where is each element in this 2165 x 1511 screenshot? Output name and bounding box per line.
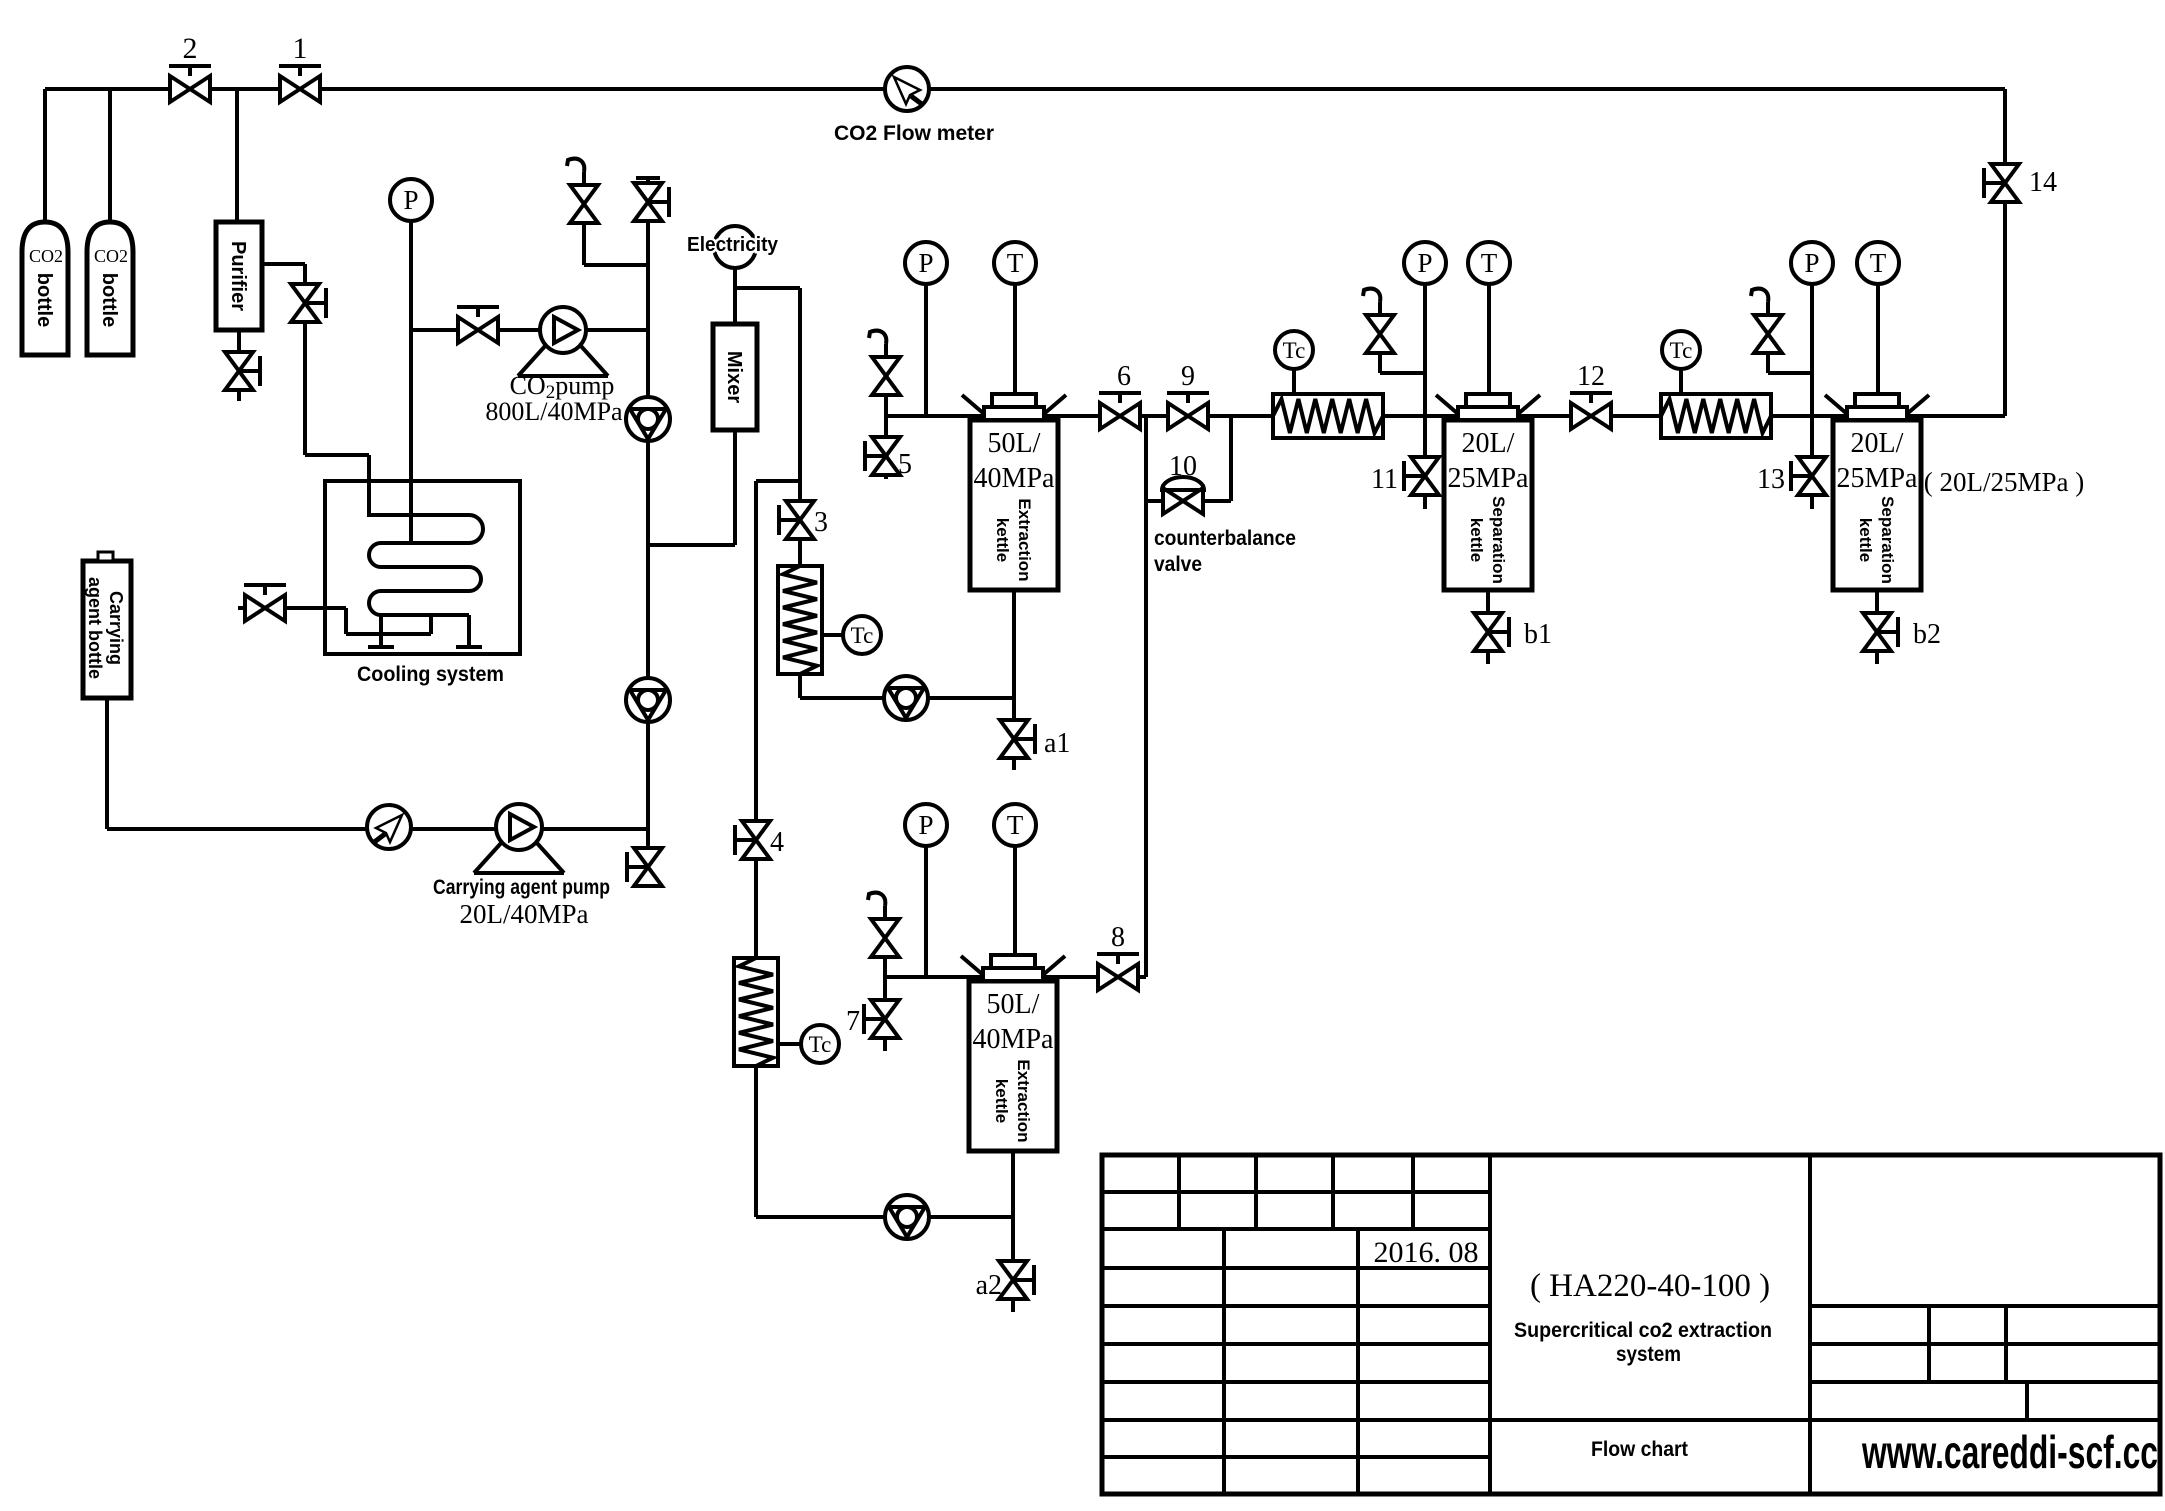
svg-text:P: P [918, 810, 933, 840]
svg-text:counterbalance: counterbalance [1154, 527, 1296, 550]
svg-text:50L/: 50L/ [988, 428, 1041, 459]
svg-text:50L/: 50L/ [987, 989, 1040, 1020]
svg-text:( HA220-40-100 ): ( HA220-40-100 ) [1530, 1268, 1770, 1304]
svg-text:T: T [1007, 810, 1024, 840]
svg-text:Tc: Tc [1283, 338, 1306, 363]
svg-text:Carrying agent pump: Carrying agent pump [433, 876, 610, 899]
svg-text:9: 9 [1181, 361, 1195, 392]
svg-text:10: 10 [1169, 451, 1197, 482]
svg-text:25MPa: 25MPa [1448, 463, 1529, 494]
svg-text:11: 11 [1371, 464, 1398, 495]
svg-text:P: P [1417, 248, 1432, 278]
svg-text:P: P [403, 185, 418, 215]
svg-text:P: P [1804, 248, 1819, 278]
svg-text:CO2: CO2 [29, 246, 63, 266]
svg-text:www.careddi-scf.cc: www.careddi-scf.cc [1861, 1426, 2158, 1478]
svg-text:3: 3 [814, 507, 828, 538]
svg-text:a2: a2 [976, 1270, 1002, 1301]
svg-text:Tc: Tc [1670, 338, 1693, 363]
svg-text:8: 8 [1111, 922, 1125, 953]
svg-text:T: T [1481, 248, 1498, 278]
svg-text:CO2 Flow meter: CO2 Flow meter [834, 122, 994, 145]
svg-text:T: T [1007, 248, 1024, 278]
svg-text:bottle: bottle [33, 273, 55, 327]
svg-text:2: 2 [183, 32, 198, 65]
svg-text:5: 5 [898, 449, 912, 480]
svg-text:13: 13 [1757, 464, 1785, 495]
svg-text:20L/: 20L/ [1462, 428, 1515, 459]
svg-text:a1: a1 [1044, 728, 1070, 759]
svg-text:Carryingagent bottle: Carryingagent bottle [85, 577, 126, 679]
svg-text:Cooling system: Cooling system [357, 663, 504, 686]
svg-text:14: 14 [2029, 167, 2057, 198]
svg-text:T: T [1870, 248, 1887, 278]
svg-text:system: system [1616, 1343, 1681, 1366]
svg-text:CO2: CO2 [94, 246, 128, 266]
svg-text:( 20L/25MPa ): ( 20L/25MPa ) [1924, 467, 2084, 497]
svg-text:4: 4 [770, 827, 784, 858]
svg-text:20L/40MPa: 20L/40MPa [459, 899, 588, 929]
svg-text:P: P [918, 248, 933, 278]
svg-text:25MPa: 25MPa [1837, 463, 1918, 494]
svg-text:6: 6 [1117, 361, 1131, 392]
svg-text:800L/40MPa: 800L/40MPa [485, 397, 623, 426]
svg-text:40MPa: 40MPa [974, 463, 1055, 494]
svg-text:b2: b2 [1913, 619, 1941, 650]
svg-text:Supercritical co2 extraction: Supercritical co2 extraction [1514, 1319, 1772, 1342]
svg-text:20L/: 20L/ [1851, 428, 1904, 459]
svg-text:Purifier: Purifier [227, 241, 249, 311]
svg-text:Electricity: Electricity [687, 234, 779, 256]
svg-text:b1: b1 [1524, 619, 1552, 650]
svg-text:7: 7 [846, 1006, 860, 1037]
svg-text:bottle: bottle [98, 273, 120, 327]
svg-text:2016. 08: 2016. 08 [1374, 1236, 1479, 1269]
svg-text:Tc: Tc [809, 1032, 832, 1057]
svg-text:valve: valve [1154, 553, 1202, 576]
svg-text:1: 1 [293, 32, 308, 65]
svg-text:Flow chart: Flow chart [1591, 1438, 1688, 1461]
svg-text:12: 12 [1577, 361, 1605, 392]
svg-text:40MPa: 40MPa [973, 1024, 1054, 1055]
svg-text:Tc: Tc [851, 623, 874, 648]
svg-text:Mixer: Mixer [723, 351, 745, 403]
